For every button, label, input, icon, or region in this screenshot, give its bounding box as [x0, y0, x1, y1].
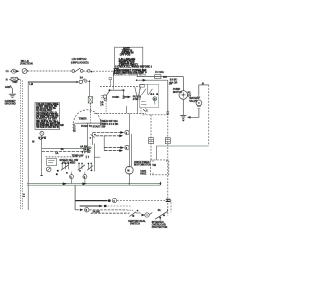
wire: right vertical dashed part — [167, 110, 169, 216]
connector row 2 — [96, 134, 124, 137]
temp run end marks — [86, 156, 88, 159]
bus end dot — [160, 182, 162, 186]
lead row1 end dot — [108, 199, 111, 202]
wire: row2 dashes right — [107, 205, 130, 207]
bottom lead arrow — [80, 209, 84, 212]
wire L1 stub — [10, 70, 12, 72]
pump motor M2 — [179, 91, 188, 100]
wire: left drop from row1 — [92, 133, 94, 146]
connector row 4 — [104, 149, 123, 152]
wire: vertical link to water level run — [86, 123, 88, 151]
svg-text:TBD: TBD — [12, 81, 17, 84]
plug terminal P1 — [12, 69, 16, 73]
wire: down from lid switch row — [88, 82, 90, 96]
label cabinet ground — [5, 100, 17, 106]
svg-text:TIMER SW 16A: TIMER SW 16A — [100, 120, 118, 123]
temp switch box — [47, 159, 57, 166]
timer cam V contact — [135, 87, 141, 113]
bus arrow 1 — [63, 182, 67, 185]
connector arrow T1 — [112, 96, 120, 99]
timer riser marks — [122, 90, 125, 99]
label water valve — [189, 97, 198, 103]
connector arrow T2 — [124, 96, 132, 99]
label timer motor B — [140, 170, 147, 175]
svg-text:MOTOR: MOTOR — [142, 164, 151, 167]
wire: tick under notes — [136, 76, 138, 77]
ground: pump earth — [180, 115, 186, 121]
wire: pump to ground — [182, 99, 184, 115]
lead row2 arrow — [99, 205, 103, 208]
terminal circle CS — [145, 213, 153, 218]
wire: L1 dashed from noise filter to lid switch — [28, 70, 72, 72]
connector row 3 — [104, 145, 129, 149]
svg-text:R: R — [154, 98, 156, 101]
svg-text:COLOR CODE WIRE: COLOR CODE WIRE — [36, 104, 59, 106]
wire: WL switch drop — [41, 135, 43, 175]
terminal block TB1 — [11, 78, 18, 81]
bus wire lower — [27, 184, 160, 186]
svg-text:SWITCH: SWITCH — [130, 222, 140, 225]
wire: right stub row — [94, 157, 100, 171]
label pump motor — [173, 88, 182, 94]
wire: dashes below motor switch box — [141, 108, 147, 114]
speed switch bank 3 — [87, 163, 93, 171]
wire: motor switch feed — [137, 79, 168, 81]
wire: cord dashed vertical R — [22, 81, 24, 209]
node GY marker on cord — [23, 194, 25, 196]
junction dot bank1 — [57, 170, 59, 172]
svg-text:PUSH TO: PUSH TO — [81, 125, 92, 128]
lid switch contact B — [88, 70, 93, 73]
label centrifugal switch — [128, 220, 146, 226]
label timer block note — [100, 120, 119, 126]
wire: row link vertical — [103, 136, 105, 151]
feed arrow — [143, 79, 147, 82]
pressure switch contacts — [38, 137, 46, 141]
svg-text:JUNCTION: JUNCTION — [20, 62, 33, 65]
capacitor C1 — [166, 199, 171, 201]
lid switch plug arrow — [76, 81, 79, 83]
wire: drop from bus to bottom — [74, 185, 76, 210]
wire: valve drop — [198, 85, 200, 96]
wire: motor to bus — [128, 174, 130, 184]
svg-text:6A OR: 6A OR — [170, 81, 178, 84]
wire: N to cord — [18, 78, 21, 80]
centrifugal switch — [127, 210, 141, 217]
svg-text:T2: T2 — [73, 127, 77, 130]
svg-text:CAM 3 4 5 6 BK: CAM 3 4 5 6 BK — [100, 123, 119, 126]
legend text — [36, 104, 64, 129]
wire: right edge dashed vertical — [208, 85, 210, 146]
drive motor M1 — [125, 166, 133, 174]
lid switch contact A — [72, 68, 83, 72]
wire: cross run grey — [156, 145, 208, 147]
row2 bold mark — [104, 205, 107, 207]
noise filter FL1 — [22, 69, 28, 74]
terminal circle S2 — [83, 172, 87, 184]
temp selector circle — [46, 167, 51, 172]
bus wire upper — [27, 183, 161, 185]
junction mark right vertical — [167, 112, 170, 114]
valve return arrowhead — [187, 116, 191, 119]
svg-text:START SW: START SW — [93, 126, 107, 129]
svg-text:2A: 2A — [100, 104, 103, 107]
wire: top solid run to lid switch plug — [28, 81, 76, 83]
svg-text:TEMP SW: TEMP SW — [72, 154, 84, 157]
motor switch box — [140, 84, 159, 107]
marks under motor switch box — [143, 109, 147, 112]
svg-text:GROUND: GROUND — [5, 103, 16, 106]
svg-text:2TM: 2TM — [133, 98, 138, 101]
wire: cross run corner drop — [155, 146, 157, 160]
connector stack at notes box corner — [114, 68, 120, 73]
centrifugal arrow — [142, 214, 146, 217]
wire: pump drop — [182, 77, 184, 91]
wire: thick lead row 1 — [75, 200, 107, 202]
wire: temp switch dashed run — [46, 156, 82, 158]
timer contact circles — [101, 91, 110, 101]
svg-text:L1: L1 — [6, 70, 10, 73]
svg-text:TM: TM — [152, 164, 156, 167]
aux contact near link — [90, 134, 96, 139]
junction dot bank3 — [91, 170, 93, 172]
svg-text:3 CHECK ALL WIRES BEFORE 1: 3 CHECK ALL WIRES BEFORE 1 — [115, 66, 152, 69]
svg-text:M: M — [32, 141, 34, 144]
svg-text:1A: 1A — [55, 152, 58, 155]
junction dot pump feed — [136, 79, 138, 81]
wire: dashed to capacitor — [117, 201, 171, 213]
svg-text:M: M — [127, 170, 129, 173]
wire: timer dashed box bottom — [94, 112, 146, 114]
wire N stub — [9, 78, 11, 80]
motor switch internals — [142, 84, 159, 95]
timer contact bar — [109, 89, 125, 91]
junction dot temp — [56, 173, 58, 175]
connector arrow on L1 — [16, 70, 19, 73]
legend box — [35, 103, 60, 130]
label switch row upper — [59, 159, 78, 164]
label overload protector — [152, 221, 168, 229]
svg-text:T1: T1 — [73, 125, 77, 128]
svg-text:FU 10A: FU 10A — [155, 71, 164, 74]
connector at run end — [87, 150, 91, 153]
svg-text:60HZ: 60HZ — [140, 172, 147, 175]
terminal circle bottom — [85, 208, 89, 213]
terminal circle branch end — [86, 146, 91, 149]
wire: timer lower bus — [75, 122, 108, 124]
speed switch bank 2 — [78, 163, 85, 171]
wire: tick drop — [109, 80, 111, 87]
wire: lid switch to junction — [83, 70, 87, 72]
svg-text:SCHEMATIC 22002036 REV A: SCHEMATIC 22002036 REV A — [113, 74, 146, 77]
svg-text:3A: 3A — [80, 77, 83, 80]
svg-text:GRN: GRN — [5, 86, 11, 89]
ground: cabinet earth — [9, 94, 16, 97]
wire: right stub upper — [93, 144, 95, 158]
wire: timer lower bus — [82, 122, 105, 124]
label timer terminals 1A 2A — [100, 101, 103, 107]
aux contact rect — [140, 85, 144, 87]
wire: dashed drop through dome — [89, 103, 91, 123]
wire: lead row 2 — [80, 205, 100, 207]
water level switch contact — [40, 131, 44, 136]
svg-text:TIMER: TIMER — [79, 118, 87, 121]
wire: motor lead riser A — [128, 113, 130, 166]
label link terminals — [80, 145, 90, 151]
label power cord — [20, 60, 33, 65]
terminal circle S1 — [70, 172, 74, 184]
wire: dashed lid switch to timer — [93, 70, 113, 72]
wire: pump feed line — [137, 76, 184, 78]
wire: valve bottom drop — [189, 109, 199, 118]
wire: right vertical solid part — [167, 80, 169, 110]
connector block J2 — [165, 138, 170, 144]
svg-text:BU: BU — [163, 76, 167, 79]
timer motor box — [150, 160, 168, 175]
svg-text:T3: T3 — [73, 130, 77, 133]
wire: cabinet left vertical — [27, 81, 29, 210]
svg-text:BR BROWN WH WHT GR: BR BROWN WH WHT GR — [36, 125, 64, 127]
svg-text:WH WHITE YE YELL: WH WHITE YE YELL — [36, 121, 59, 123]
junction marks on water level run — [82, 151, 85, 153]
junction dot motor-bus — [128, 183, 130, 185]
terminal circle row1 — [112, 198, 116, 203]
svg-text:VI VIOLET GY GRY: VI VIOLET GY GRY — [36, 119, 57, 121]
svg-text:GY: GY — [188, 94, 192, 97]
notes text — [114, 48, 153, 74]
connector tick on drop — [109, 78, 112, 80]
svg-text:OFF POS: OFF POS — [120, 54, 131, 57]
valve outlet marks — [197, 107, 201, 109]
connector row 1 — [93, 130, 130, 134]
wire: timer dashed box top — [100, 86, 140, 88]
timer dome dashed arc — [74, 110, 101, 124]
junction dot N — [18, 79, 20, 81]
svg-text:LM: LM — [29, 83, 33, 86]
valve inlet marks — [197, 96, 200, 99]
notes box — [115, 47, 143, 73]
wire: valve top run — [199, 84, 209, 86]
svg-text:BU BLUE WHT: BU BLUE WHT — [36, 110, 53, 112]
wire: dashed drop inside timer — [105, 101, 107, 114]
temp switch marks — [48, 160, 54, 162]
svg-text:LID SWITCH: LID SWITCH — [72, 58, 87, 61]
fuse F1 in timer — [88, 97, 92, 104]
junction dot bank1b — [66, 172, 68, 174]
wire: bottom run lower — [91, 212, 130, 214]
wire: bottom corner — [75, 209, 79, 211]
wire: cord dashed vertical L — [20, 80, 22, 210]
label pump terminals — [170, 79, 178, 85]
label timer terminals column — [73, 125, 77, 134]
junction dot bank2 — [79, 170, 81, 172]
svg-text:(UNPLUGGED): (UNPLUGGED) — [71, 61, 89, 64]
svg-text:4A: 4A — [158, 209, 161, 212]
aux terminal tab — [138, 96, 140, 99]
bus arrow 2 — [82, 182, 86, 185]
wire: branch upper — [42, 147, 85, 149]
lid switch plug receptacle — [79, 79, 90, 84]
wire: drop from lid wire into timer — [112, 71, 114, 89]
wire: bottom run upper — [89, 209, 127, 211]
wire: dashed link row — [143, 114, 168, 116]
wire: riser to box bottom — [126, 106, 128, 114]
wire: dashed below fuse — [89, 103, 91, 113]
wire: motor lead riser B — [131, 134, 133, 166]
label timer block note — [81, 125, 106, 129]
overload switch blade — [155, 209, 167, 221]
water valve solenoid — [196, 100, 202, 106]
label timer motor A — [142, 161, 151, 167]
label pump right — [188, 92, 192, 98]
wire: green ground wire — [10, 85, 12, 93]
motor switch lower marks — [141, 101, 155, 105]
svg-text:GR GREEN YELLO: GR GREEN YELLO — [36, 113, 57, 115]
label timer contact — [133, 95, 142, 101]
wire: water level run — [42, 151, 88, 153]
speed switch bank 1 — [61, 163, 69, 171]
svg-text:N: N — [6, 79, 8, 82]
connector block J1 — [149, 138, 154, 144]
wire: dashed drop to timer motor — [150, 115, 152, 160]
svg-text:4A: 4A — [61, 148, 64, 151]
svg-text:PROTECTOR: PROTECTOR — [152, 226, 168, 229]
label drive motor — [134, 161, 143, 167]
label lid switch — [71, 58, 89, 64]
end mark WL drop — [40, 175, 42, 177]
fuse F2 — [155, 75, 161, 79]
start relay coil — [153, 97, 157, 101]
